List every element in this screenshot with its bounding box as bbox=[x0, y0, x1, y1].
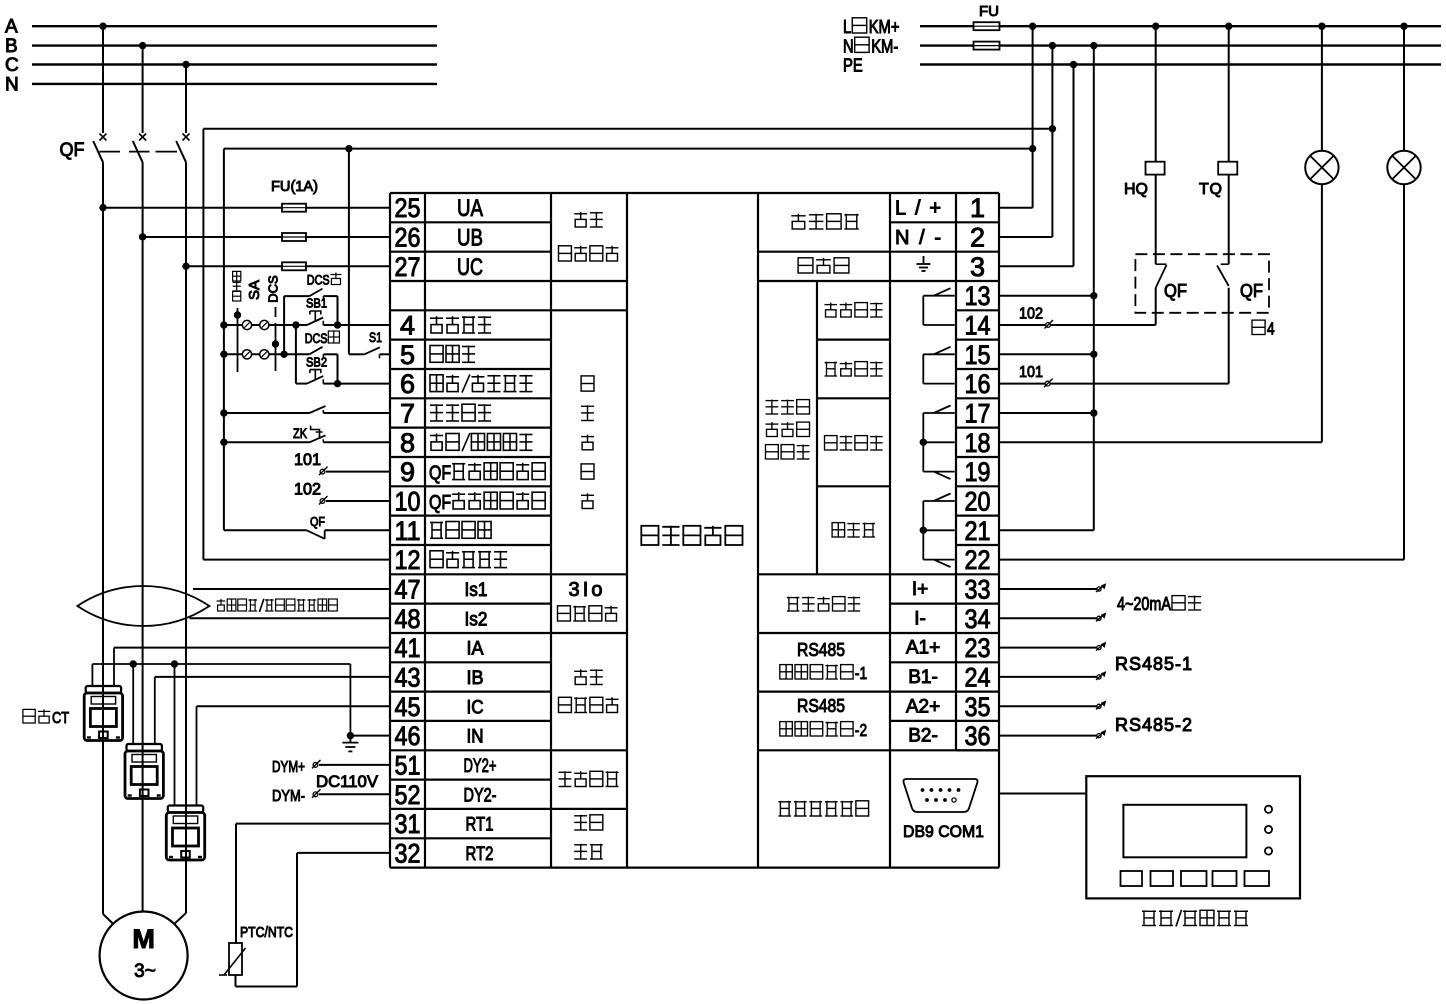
svg-text:51: 51 bbox=[395, 750, 421, 780]
svg-text:B1-: B1- bbox=[908, 667, 938, 688]
svg-text:B: B bbox=[5, 36, 18, 57]
svg-text:FU(1A): FU(1A) bbox=[271, 178, 318, 195]
svg-text:KM+: KM+ bbox=[869, 16, 900, 37]
svg-text:DC110V: DC110V bbox=[316, 772, 379, 791]
svg-text:QF: QF bbox=[60, 140, 85, 161]
svg-text:36: 36 bbox=[965, 721, 991, 751]
svg-text:DCS: DCS bbox=[266, 275, 281, 303]
svg-text:11: 11 bbox=[395, 516, 421, 546]
svg-text:DCS: DCS bbox=[305, 331, 328, 346]
svg-text:SB1: SB1 bbox=[306, 296, 327, 311]
svg-text:6: 6 bbox=[400, 369, 415, 399]
svg-text:RS485: RS485 bbox=[797, 640, 845, 660]
svg-text:QF: QF bbox=[1164, 281, 1187, 301]
svg-text:SA: SA bbox=[246, 280, 263, 300]
svg-text:101: 101 bbox=[1019, 364, 1043, 381]
svg-text:8: 8 bbox=[400, 428, 415, 458]
svg-text:24: 24 bbox=[965, 662, 991, 692]
svg-text:9: 9 bbox=[400, 457, 415, 487]
svg-text:UC: UC bbox=[457, 254, 483, 281]
svg-text:I+: I+ bbox=[912, 579, 928, 600]
svg-text:102: 102 bbox=[1019, 306, 1043, 323]
svg-text:M: M bbox=[132, 924, 155, 954]
svg-text:RS485-1: RS485-1 bbox=[1115, 654, 1192, 674]
svg-text:CT: CT bbox=[52, 710, 69, 727]
svg-text:17: 17 bbox=[965, 399, 991, 429]
svg-text:101: 101 bbox=[294, 450, 321, 469]
svg-text:A: A bbox=[5, 17, 18, 38]
svg-text:16: 16 bbox=[965, 369, 991, 399]
svg-text:QF: QF bbox=[310, 514, 325, 529]
svg-text:IB: IB bbox=[467, 668, 484, 689]
svg-text:QF: QF bbox=[429, 463, 451, 485]
svg-text:-2: -2 bbox=[855, 721, 867, 740]
svg-text:QF: QF bbox=[429, 492, 451, 514]
svg-text:22: 22 bbox=[965, 545, 991, 575]
svg-text:21: 21 bbox=[965, 516, 991, 546]
svg-text:DB9 COM1: DB9 COM1 bbox=[903, 822, 984, 841]
svg-text:B2-: B2- bbox=[908, 726, 938, 747]
svg-text:19: 19 bbox=[965, 457, 991, 487]
svg-text:15: 15 bbox=[965, 340, 991, 370]
svg-text:KM-: KM- bbox=[871, 35, 898, 56]
svg-text:IC: IC bbox=[467, 697, 484, 718]
svg-text:4: 4 bbox=[1267, 320, 1275, 339]
svg-text:35: 35 bbox=[965, 692, 991, 722]
svg-text:N: N bbox=[5, 74, 19, 95]
svg-text:20: 20 bbox=[965, 487, 991, 517]
svg-text:IN: IN bbox=[467, 727, 484, 748]
svg-text:-1: -1 bbox=[855, 664, 867, 683]
svg-text:102: 102 bbox=[294, 480, 321, 499]
svg-text:L/+: L/+ bbox=[895, 198, 941, 220]
svg-text:RS485-2: RS485-2 bbox=[1115, 715, 1192, 735]
svg-text:18: 18 bbox=[965, 428, 991, 458]
svg-text:7: 7 bbox=[400, 399, 415, 429]
svg-text:PE: PE bbox=[843, 54, 863, 75]
svg-text:3~: 3~ bbox=[134, 961, 156, 982]
svg-text:DYM-: DYM- bbox=[272, 788, 305, 805]
svg-text:RT1: RT1 bbox=[466, 815, 494, 836]
svg-text:A2+: A2+ bbox=[906, 696, 940, 717]
svg-text:34: 34 bbox=[965, 604, 991, 634]
svg-text:45: 45 bbox=[395, 692, 421, 722]
svg-text:N: N bbox=[843, 35, 854, 56]
svg-text:23: 23 bbox=[965, 633, 991, 663]
svg-text:25: 25 bbox=[395, 193, 421, 223]
svg-text:FU: FU bbox=[979, 3, 999, 20]
svg-text:10: 10 bbox=[395, 487, 421, 517]
svg-text:33: 33 bbox=[965, 575, 991, 605]
svg-text:14: 14 bbox=[965, 311, 991, 341]
svg-text:48: 48 bbox=[395, 604, 421, 634]
svg-text:31: 31 bbox=[395, 809, 421, 839]
svg-text:4~20mA: 4~20mA bbox=[1117, 594, 1171, 614]
svg-text:IA: IA bbox=[467, 639, 484, 660]
svg-text:1: 1 bbox=[970, 193, 985, 223]
svg-text:41: 41 bbox=[395, 633, 421, 663]
svg-text:46: 46 bbox=[395, 721, 421, 751]
svg-text:C: C bbox=[5, 55, 19, 76]
svg-text:52: 52 bbox=[395, 780, 421, 810]
svg-text:32: 32 bbox=[395, 838, 421, 868]
svg-text:QF: QF bbox=[1240, 281, 1263, 301]
svg-text:HQ: HQ bbox=[1124, 181, 1148, 198]
svg-text:43: 43 bbox=[395, 662, 421, 692]
svg-text:TQ: TQ bbox=[1199, 181, 1222, 198]
svg-text:RT2: RT2 bbox=[466, 844, 494, 865]
svg-text:S1: S1 bbox=[369, 329, 382, 345]
svg-text:26: 26 bbox=[395, 223, 421, 253]
svg-text:PTC/NTC: PTC/NTC bbox=[240, 924, 293, 941]
svg-text:3Io: 3Io bbox=[569, 579, 603, 601]
svg-text:DY2+: DY2+ bbox=[464, 756, 497, 777]
svg-text:A1+: A1+ bbox=[906, 638, 940, 659]
svg-text:Is1: Is1 bbox=[465, 580, 488, 601]
svg-text:DCS: DCS bbox=[307, 273, 330, 288]
svg-text:DY2-: DY2- bbox=[464, 785, 497, 806]
svg-text:4: 4 bbox=[400, 311, 415, 341]
svg-text:5: 5 bbox=[400, 340, 415, 370]
svg-text:UA: UA bbox=[457, 195, 483, 222]
svg-text:DYM+: DYM+ bbox=[272, 759, 305, 776]
svg-text:12: 12 bbox=[395, 545, 421, 575]
svg-text:3: 3 bbox=[970, 252, 985, 282]
svg-text:ZK: ZK bbox=[293, 425, 308, 441]
svg-text:L: L bbox=[843, 16, 851, 37]
svg-text:RS485: RS485 bbox=[797, 696, 845, 716]
svg-text:27: 27 bbox=[395, 252, 421, 282]
svg-text:2: 2 bbox=[970, 223, 985, 253]
svg-text:I-: I- bbox=[914, 608, 926, 629]
svg-text:13: 13 bbox=[965, 281, 991, 311]
svg-text:47: 47 bbox=[395, 575, 421, 605]
svg-text:UB: UB bbox=[457, 225, 483, 252]
svg-text:Is2: Is2 bbox=[465, 609, 488, 630]
svg-text:SB2: SB2 bbox=[306, 355, 327, 370]
